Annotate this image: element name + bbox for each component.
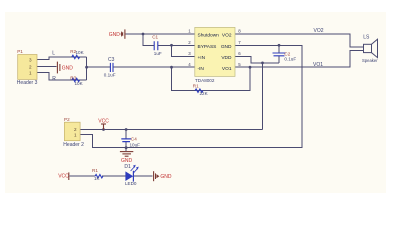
svg-text:0.1uF: 0.1uF (104, 73, 116, 78)
svg-text:2: 2 (74, 127, 77, 132)
svg-text:Header 2: Header 2 (63, 142, 84, 148)
svg-text:L: L (52, 51, 55, 57)
svg-text:LS: LS (363, 35, 370, 41)
svg-text:GND: GND (160, 174, 172, 180)
svg-text:GND: GND (62, 66, 74, 72)
svg-text:Shutdown: Shutdown (198, 33, 220, 39)
svg-text:D1: D1 (124, 164, 131, 170)
svg-text:P2: P2 (64, 117, 70, 122)
svg-text:VO1: VO1 (313, 62, 323, 68)
svg-text:+IN: +IN (198, 55, 206, 61)
svg-text:P1: P1 (17, 49, 23, 54)
svg-text:VCC: VCC (58, 173, 69, 179)
svg-text:GND: GND (121, 158, 133, 164)
svg-text:R1: R1 (92, 168, 98, 173)
svg-text:10K: 10K (76, 50, 85, 55)
svg-text:1: 1 (29, 71, 32, 76)
svg-text:VDD: VDD (221, 55, 232, 61)
svg-text:VO1: VO1 (222, 66, 232, 72)
svg-text:10K: 10K (75, 81, 84, 86)
svg-text:C4: C4 (131, 137, 137, 142)
svg-text:C1: C1 (152, 34, 158, 39)
svg-text:-IN: -IN (198, 66, 205, 72)
svg-text:3: 3 (29, 58, 32, 63)
svg-text:1: 1 (74, 132, 77, 137)
svg-text:GND: GND (221, 44, 232, 50)
svg-text:1K: 1K (94, 176, 101, 181)
svg-text:0.1uF: 0.1uF (284, 57, 296, 62)
svg-text:GND: GND (109, 32, 121, 38)
svg-text:VO2: VO2 (314, 28, 324, 34)
svg-text:2: 2 (29, 64, 32, 69)
svg-text:VO2: VO2 (222, 33, 232, 39)
svg-text:R: R (52, 76, 56, 82)
svg-text:C3: C3 (108, 57, 115, 63)
svg-text:VCC: VCC (98, 119, 109, 125)
svg-text:R1: R1 (193, 84, 199, 89)
svg-text:BYPASS: BYPASS (198, 44, 217, 50)
svg-text:Header 3: Header 3 (17, 80, 38, 86)
svg-text:R3: R3 (70, 75, 76, 80)
svg-text:22K: 22K (200, 91, 209, 96)
svg-text:1uF: 1uF (154, 51, 162, 56)
svg-text:TDA8002: TDA8002 (195, 78, 215, 83)
svg-text:LED0: LED0 (125, 181, 137, 186)
svg-text:10uF: 10uF (130, 143, 141, 148)
svg-text:Speaker: Speaker (362, 58, 378, 63)
